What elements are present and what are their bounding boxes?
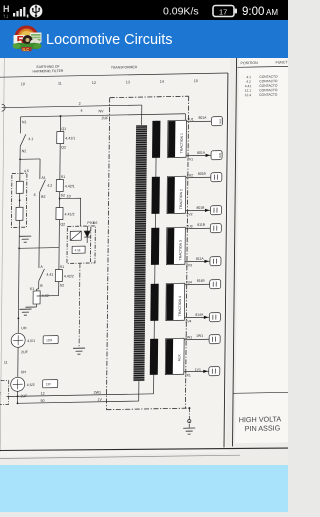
svg-text:12M: 12M: [46, 338, 52, 342]
junction on wire4: [59, 115, 61, 117]
label box Y56: [72, 246, 85, 253]
svg-text:4.5: 4.5: [24, 169, 29, 173]
dash-dot line from thyristor to ground: [78, 263, 81, 348]
ground 2: [73, 348, 85, 354]
svg-text:1V: 1V: [97, 398, 102, 402]
bottom-left dashed box: [0, 380, 9, 404]
svg-text:14: 14: [160, 80, 164, 84]
page bottom border (overlay, true slope): [0, 448, 290, 459]
svg-text:2UF: 2UF: [101, 116, 109, 120]
wire 4 (second wire): [21, 114, 186, 117]
svg-text:H: H: [3, 4, 10, 14]
HSPA H icon: [3, 4, 10, 20]
svg-text:S1: S1: [30, 287, 34, 291]
svg-text:AM: AM: [266, 8, 278, 17]
svg-text:13P: 13P: [46, 382, 51, 386]
svg-text:3.6: 3.6: [92, 221, 97, 225]
svg-text:4.1: 4.1: [246, 75, 251, 79]
svg-text:11: 11: [58, 82, 62, 86]
ground: [19, 236, 31, 242]
svg-text:POSITION: POSITION: [241, 61, 259, 65]
svg-text:2V3: 2V3: [186, 263, 192, 267]
svg-text:4.56: 4.56: [75, 248, 81, 252]
svg-text:2V2: 2V2: [186, 212, 192, 216]
svg-text:4.2: 4.2: [47, 184, 52, 188]
svg-text:CONTACTO: CONTACTO: [259, 93, 278, 97]
app bar: [0, 20, 288, 58]
main left wire down to CTs: [17, 248, 20, 333]
page1 right border: [224, 73, 228, 448]
svg-text:8V1: 8V1: [218, 152, 222, 157]
svg-text:PIN ASSIG: PIN ASSIG: [245, 423, 281, 433]
svg-text:2: 2: [0, 392, 1, 396]
svg-text:801B: 801B: [198, 172, 207, 176]
svg-text:4.2: 4.2: [246, 80, 251, 84]
tap wires to terminals: [186, 120, 211, 122]
svg-text:S2: S2: [61, 193, 65, 197]
svg-text:4.42/2: 4.42/2: [64, 274, 74, 278]
right bottom dashed drop and ground: [188, 407, 190, 409]
svg-text:4.5/2: 4.5/2: [27, 383, 35, 387]
svg-text:10: 10: [67, 194, 71, 198]
secondary common line: [154, 121, 157, 394]
svg-text:4.41/1: 4.41/1: [65, 136, 75, 140]
svg-text:814B: 814B: [197, 279, 206, 283]
transformer dashed enclosure: [106, 96, 192, 410]
page2 left border: [233, 50, 237, 446]
usb icon: [30, 5, 43, 18]
svg-text:2UF: 2UF: [21, 350, 29, 354]
switch 4.41: [39, 248, 54, 289]
earthing resistor dashed box: [11, 173, 27, 227]
table rows: [245, 75, 278, 98]
svg-text:N2: N2: [22, 149, 27, 153]
label 3.6: [92, 221, 97, 225]
svg-text:801A: 801A: [198, 116, 207, 120]
wire 2 (main top wire): [2, 105, 142, 108]
svg-text:50: 50: [40, 399, 44, 403]
resistor R1: [19, 159, 21, 181]
terminal 8U1: [211, 117, 222, 126]
branch to thyristor unit: [59, 198, 61, 200]
svg-text:A1: A1: [41, 176, 45, 180]
svg-text:4.41: 4.41: [245, 84, 252, 88]
primary bottom connection: [138, 381, 140, 401]
svg-text:4.41: 4.41: [46, 273, 53, 277]
svg-text:811B: 811B: [197, 223, 205, 227]
svg-text:0.09K/s: 0.09K/s: [163, 6, 199, 18]
svg-text:10: 10: [21, 82, 25, 86]
svg-text:4.42/1: 4.42/1: [65, 184, 75, 188]
switch 4.2: [33, 159, 52, 248]
svg-text:15: 15: [194, 79, 198, 83]
svg-text:Q2: Q2: [61, 145, 66, 149]
svg-text:2W1: 2W1: [185, 335, 192, 339]
svg-text:UH: UH: [21, 370, 27, 374]
svg-text:TRACTION 1: TRACTION 1: [180, 133, 184, 153]
svg-text:AUX: AUX: [177, 354, 181, 362]
svg-text:B2: B2: [41, 195, 45, 199]
svg-text:S2: S2: [60, 283, 64, 287]
svg-text:12: 12: [92, 81, 96, 85]
svg-text:4: 4: [81, 109, 83, 113]
svg-text:801B: 801B: [196, 206, 205, 210]
app logo: [11, 24, 43, 56]
signal bars: [13, 7, 28, 18]
resistor 4.42: [30, 287, 59, 308]
svg-text:8U1: 8U1: [218, 118, 222, 124]
resistor 4.42/1: [56, 158, 75, 207]
connector at left edge: [2, 104, 6, 111]
table header: [241, 60, 292, 65]
svg-text:12.4: 12.4: [245, 93, 252, 97]
resistor R2: [19, 193, 21, 207]
svg-text:S1: S1: [61, 175, 65, 179]
ground 3: [19, 307, 36, 315]
svg-text:2W1: 2W1: [94, 391, 101, 395]
svg-text:11: 11: [4, 361, 8, 365]
svg-text:801A: 801A: [197, 151, 206, 155]
svg-text:TRANSFORMER: TRANSFORMER: [111, 65, 138, 69]
svg-text:UH: UH: [21, 326, 27, 330]
terminal 8V1: [211, 151, 222, 160]
svg-text:1W1: 1W1: [196, 334, 203, 338]
svg-text:6: 6: [34, 193, 36, 197]
svg-text:12.1: 12.1: [245, 89, 252, 93]
primary winding (striped bar): [133, 125, 147, 381]
resistor 4.41/1: [57, 116, 76, 159]
svg-text:4.5/1: 4.5/1: [27, 339, 35, 343]
page2 bottom area rule: [233, 392, 288, 393]
content: scanned schematic: [0, 58, 288, 512]
svg-text:Q2: Q2: [60, 222, 65, 226]
svg-text:4.41/2: 4.41/2: [64, 212, 74, 216]
right page (page 2): [235, 47, 299, 443]
column labels: [21, 79, 198, 86]
resistor 4.41/2: [56, 207, 75, 247]
svg-text:TRACTION 2: TRACTION 2: [179, 189, 183, 209]
HIGH VOLTAGE text: [239, 414, 282, 433]
current transformer 4.5/1: [11, 326, 58, 355]
svg-text:2U4: 2U4: [186, 280, 192, 284]
svg-text:9:00: 9:00: [242, 6, 264, 18]
label 4.5: [24, 169, 29, 173]
svg-text:2V4: 2V4: [185, 319, 191, 323]
svg-text:4.1: 4.1: [28, 137, 33, 141]
svg-text:S1: S1: [60, 265, 64, 269]
traction 1 box: [168, 120, 187, 157]
thyristor diode: [84, 226, 90, 243]
svg-text:13: 13: [126, 80, 130, 84]
winding bar 1: [152, 121, 160, 158]
blue banner at bottom: [0, 465, 288, 512]
relay coil: [70, 231, 81, 240]
svg-text:ILC: ILC: [23, 47, 30, 52]
svg-text:2U2: 2U2: [187, 173, 193, 177]
svg-text:12: 12: [41, 392, 45, 396]
status bar: [0, 0, 288, 20]
svg-text:HARMONIC FILTER: HARMONIC FILTER: [33, 69, 64, 74]
bottom wires: [16, 391, 18, 403]
svg-text:2U3: 2U3: [186, 224, 192, 228]
svg-text:NV: NV: [99, 109, 105, 113]
thyristor unit dashed box: [67, 221, 95, 264]
resistor 4.42/2: [55, 247, 74, 295]
svg-text:17: 17: [219, 7, 227, 16]
battery with 17: [213, 6, 237, 17]
svg-text:1V1: 1V1: [195, 368, 201, 372]
svg-text:814A: 814A: [195, 313, 204, 317]
junction and cross wire: [18, 247, 20, 249]
wire joint at 99: [20, 158, 40, 160]
header rule: [0, 73, 228, 77]
svg-text:FUNCTIO: FUNCTIO: [276, 60, 288, 64]
svg-text:2: 2: [79, 102, 81, 106]
switch 4.1: [20, 117, 33, 160]
svg-text:811A: 811A: [196, 257, 204, 261]
svg-text:2X1: 2X1: [185, 373, 191, 377]
page backgrounds (unrotated base): [0, 58, 288, 512]
wire drop from wire4 to traction tap: [184, 114, 186, 122]
wire drop to primary: [141, 105, 143, 125]
svg-text:N1: N1: [22, 120, 27, 124]
svg-text:2V1: 2V1: [187, 157, 193, 161]
current transformer 4.5/2: [11, 347, 59, 399]
svg-text:2U1: 2U1: [187, 117, 193, 121]
svg-text:TRACTION 3: TRACTION 3: [178, 240, 182, 260]
svg-text:TRACTION 4: TRACTION 4: [178, 296, 182, 316]
main page (page 1): [0, 50, 234, 456]
svg-text:Q1: Q1: [61, 127, 66, 131]
header text: EARTHING OF HARMONIC FILTER: [33, 63, 138, 73]
